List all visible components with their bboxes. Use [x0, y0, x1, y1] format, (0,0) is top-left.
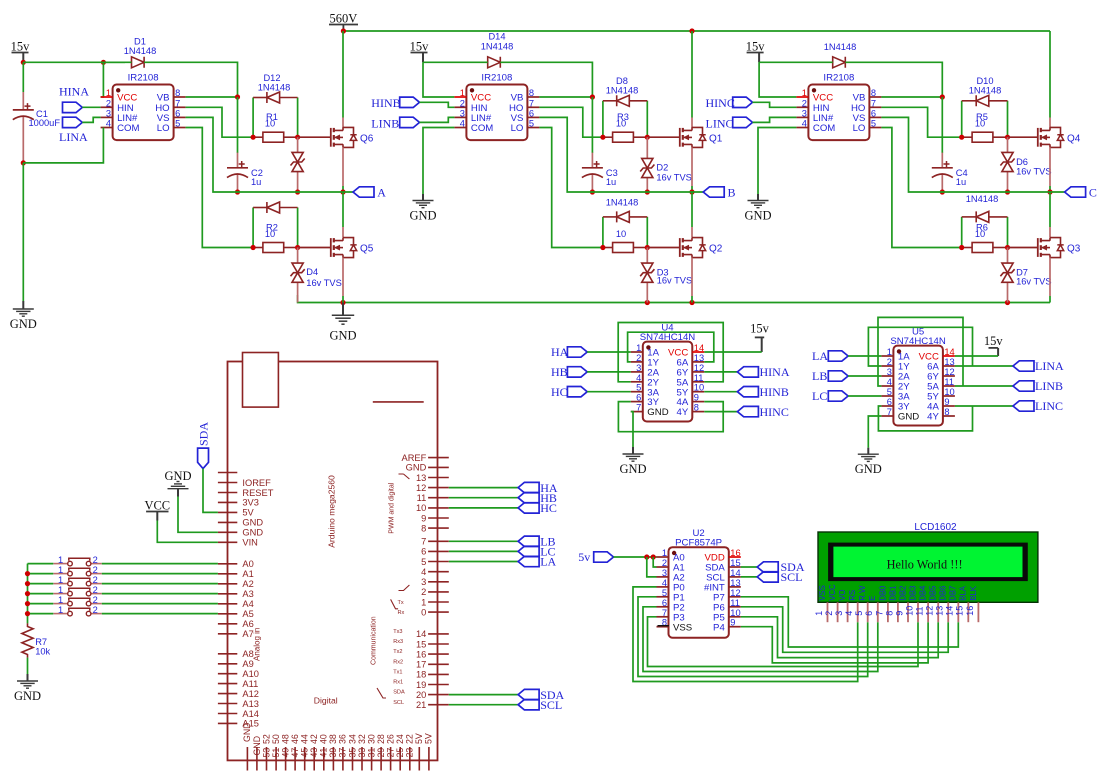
pin bottom 8	[313, 747, 315, 771]
svg-text:2: 2	[824, 611, 834, 616]
svg-text:38: 38	[328, 734, 338, 744]
transistor Q4	[1037, 128, 1039, 147]
svg-text:HC: HC	[551, 385, 568, 399]
svg-text:3: 3	[460, 108, 465, 118]
lcd pin 2 VCC	[837, 602, 839, 622]
wire gate res right vertical	[1007, 101, 1009, 137]
svg-text:14: 14	[945, 606, 955, 616]
svg-text:DB7: DB7	[949, 586, 958, 601]
svg-text:GND: GND	[242, 528, 263, 538]
junction	[590, 189, 595, 194]
svg-text:Analog in: Analog in	[253, 628, 262, 661]
pin 3	[428, 581, 449, 583]
svg-text:15v: 15v	[746, 40, 766, 54]
wire loop 3Y-4A	[618, 402, 723, 432]
svg-text:VSS: VSS	[673, 622, 692, 633]
wire LINB from U5	[955, 385, 1013, 387]
svg-text:A11: A11	[242, 679, 258, 689]
pin 13 (#INT)	[729, 586, 741, 588]
svg-text:5: 5	[854, 611, 864, 616]
pin 16 (VDD)	[729, 556, 741, 558]
wire U4 GND wire	[631, 412, 633, 447]
svg-text:Tx2: Tx2	[393, 649, 402, 655]
svg-text:7: 7	[421, 537, 426, 547]
svg-text:12: 12	[944, 367, 954, 377]
svg-text:GND: GND	[14, 689, 41, 703]
pin 17	[428, 663, 449, 665]
svg-text:HA: HA	[551, 345, 569, 359]
switch button A1	[53, 573, 67, 575]
svg-text:10: 10	[265, 119, 275, 129]
lcd pin 16 BLK	[977, 602, 979, 622]
wire gate low	[1008, 247, 1038, 249]
svg-text:10: 10	[975, 119, 985, 129]
svg-text:B: B	[728, 186, 736, 200]
svg-text:D2: D2	[656, 163, 668, 173]
op-amp driver U_C IR2108	[808, 85, 869, 141]
pin 2 (HIN)	[454, 106, 466, 108]
pin A8	[218, 653, 237, 655]
lcd pin 5 R.W	[867, 602, 869, 622]
svg-text:DB3: DB3	[908, 586, 917, 601]
wire LO to lower gate resistor	[539, 128, 603, 248]
wire HB wire	[449, 497, 518, 499]
svg-text:HC: HC	[540, 501, 557, 515]
svg-text:1u: 1u	[956, 177, 966, 187]
pin 8 (4Y)	[943, 415, 955, 417]
svg-text:11: 11	[915, 606, 925, 615]
wire HA to U4	[587, 351, 631, 353]
pin 12 (6Y)	[692, 371, 704, 373]
pin 9 (4A)	[943, 405, 955, 407]
svg-text:GND: GND	[242, 518, 263, 528]
pin GND	[218, 531, 237, 533]
wire LA wire	[449, 561, 518, 563]
wire 15v rail	[23, 61, 125, 63]
capacitor C4	[941, 153, 943, 168]
pin 5 (P1)	[657, 596, 669, 598]
svg-text:1: 1	[58, 595, 63, 605]
svg-text:PCF8574P: PCF8574P	[675, 537, 722, 548]
wire LIN input	[753, 117, 797, 122]
svg-text:5: 5	[662, 588, 667, 598]
svg-text:Tx1: Tx1	[393, 670, 402, 676]
pin 5 (3A)	[631, 391, 643, 393]
svg-text:LINC: LINC	[706, 117, 734, 131]
flag LB	[518, 536, 539, 546]
flag LA	[518, 556, 539, 566]
svg-text:22: 22	[405, 734, 415, 744]
pin 3 (LIN#)	[796, 116, 808, 118]
pin 5V	[218, 511, 237, 513]
wire ground bus	[298, 295, 1050, 303]
svg-text:2: 2	[887, 357, 892, 367]
wire HIN input	[82, 106, 100, 108]
svg-text:1u: 1u	[606, 177, 616, 187]
svg-text:11: 11	[417, 493, 427, 503]
svg-text:14: 14	[944, 347, 954, 357]
wire HO to gate resistor	[539, 107, 603, 137]
svg-text:15v: 15v	[11, 40, 31, 54]
svg-text:A10: A10	[242, 669, 259, 679]
pin bottom 3	[266, 747, 268, 771]
svg-text:5: 5	[175, 119, 180, 129]
wire HO to gate resistor	[881, 107, 961, 137]
junction	[689, 189, 694, 194]
pin 9 (4A)	[692, 401, 704, 403]
pin 5	[428, 561, 449, 563]
junction	[341, 28, 346, 33]
junction	[21, 60, 26, 65]
pin nc	[218, 472, 237, 474]
pin bottom 10	[332, 747, 334, 771]
lcd bezel	[828, 543, 1028, 582]
svg-text:6: 6	[636, 393, 641, 403]
svg-text:4: 4	[460, 119, 465, 129]
svg-text:VCC: VCC	[828, 584, 837, 601]
diode D8 1N4148	[603, 100, 617, 102]
svg-text:Digital: Digital	[314, 695, 338, 705]
svg-text:24: 24	[395, 734, 405, 744]
junction	[644, 554, 649, 559]
ground phase A left	[22, 301, 24, 309]
svg-text:7: 7	[871, 98, 876, 108]
pin 1 (1A)	[631, 351, 643, 353]
svg-text:37: 37	[338, 748, 348, 758]
pin GND	[428, 466, 449, 468]
pin A9	[218, 663, 237, 665]
svg-text:16: 16	[730, 548, 740, 558]
svg-text:26: 26	[385, 734, 395, 744]
wire HB to U4	[587, 371, 631, 373]
resistor R3	[603, 136, 613, 138]
svg-text:DB0: DB0	[878, 585, 887, 601]
pin A13	[218, 703, 237, 705]
junction	[645, 245, 650, 250]
wire P5 to DB5	[741, 617, 938, 658]
wire gate	[298, 136, 331, 138]
svg-text:D6: D6	[1016, 157, 1028, 167]
svg-text:32: 32	[357, 734, 367, 744]
svg-text:COM: COM	[117, 123, 139, 134]
wire supply diode to bootstrap	[500, 62, 592, 97]
junction	[340, 300, 345, 305]
svg-text:1: 1	[814, 611, 824, 616]
junction	[101, 60, 106, 65]
lcd pin 11 DB4	[927, 602, 929, 622]
wire P3 to DB3	[648, 617, 919, 667]
ground U4	[632, 447, 634, 454]
wire gate res left vertical	[602, 101, 604, 137]
junction	[600, 245, 605, 250]
wire button A4 left	[28, 603, 54, 605]
svg-text:1: 1	[887, 347, 892, 357]
svg-text:27: 27	[385, 748, 395, 758]
wire button A0 to pin A0	[102, 563, 218, 565]
wire button A5 to pin A5	[102, 613, 218, 615]
svg-text:1000uF: 1000uF	[29, 118, 61, 128]
svg-text:1N4148: 1N4148	[969, 86, 1002, 96]
wire button A2 to pin A2	[102, 583, 218, 585]
wire LC wire	[449, 550, 518, 552]
wire loop 1Y-6A	[628, 332, 714, 362]
lcd pin 13 DB6	[947, 602, 949, 622]
junction	[235, 189, 240, 194]
wire loop 2Y-5A U5	[878, 317, 963, 386]
svg-text:13: 13	[730, 578, 740, 588]
svg-text:A0: A0	[242, 559, 253, 569]
wire supply diode to bootstrap	[144, 62, 237, 97]
svg-text:31: 31	[366, 748, 376, 758]
svg-text:15: 15	[730, 558, 740, 568]
svg-text:5: 5	[529, 119, 534, 129]
svg-text:SN74HC14N: SN74HC14N	[640, 332, 696, 343]
wire source Q6	[342, 147, 344, 186]
svg-text:4: 4	[802, 119, 807, 129]
pin 7 (HO)	[174, 106, 186, 108]
diode D12 1N4148	[253, 97, 267, 99]
wire button A0 left	[28, 563, 54, 565]
svg-text:21: 21	[416, 700, 426, 710]
svg-text:6: 6	[662, 598, 667, 608]
svg-text:DB5: DB5	[929, 585, 938, 601]
pin 8 (VB)	[527, 96, 539, 98]
svg-text:HINA: HINA	[760, 365, 790, 379]
svg-text:33: 33	[357, 748, 367, 758]
pin A0	[218, 563, 237, 565]
svg-text:D14: D14	[488, 32, 505, 42]
junction	[590, 94, 595, 99]
svg-text:25: 25	[395, 748, 405, 758]
svg-text:A2: A2	[242, 579, 253, 589]
svg-text:52: 52	[261, 734, 271, 744]
pin 5 (LO)	[869, 127, 881, 129]
pin 13 (6A)	[943, 365, 955, 367]
svg-text:13: 13	[944, 357, 954, 367]
pin 4	[428, 571, 449, 573]
wire drain Q5	[342, 192, 344, 227]
wire VCC to VIN pin	[157, 521, 218, 543]
svg-text:10k: 10k	[35, 647, 50, 657]
svg-text:7: 7	[874, 611, 884, 616]
svg-text:9: 9	[894, 611, 904, 616]
svg-text:IOREF: IOREF	[242, 478, 271, 488]
lcd module body	[818, 532, 1038, 602]
svg-text:14: 14	[694, 343, 704, 353]
pin A14	[218, 713, 237, 715]
wire source Q1	[691, 147, 693, 186]
wire SDA wire	[449, 694, 518, 696]
svg-text:VIN: VIN	[242, 538, 258, 548]
svg-text:15: 15	[416, 639, 426, 649]
wire R7 to ground	[27, 658, 29, 674]
pin 10	[428, 507, 449, 509]
pin bottom 6	[294, 747, 296, 771]
pin 6 (3Y)	[881, 405, 893, 407]
pin 1 (VCC)	[796, 96, 808, 98]
svg-text:46: 46	[290, 734, 300, 744]
svg-text:C: C	[1089, 186, 1097, 200]
svg-text:A8: A8	[242, 649, 253, 659]
svg-text:42: 42	[309, 734, 319, 744]
wire drain Q3	[1049, 192, 1051, 227]
flag node C	[1065, 187, 1086, 197]
svg-text:A3: A3	[242, 589, 253, 599]
wire 15v to VCC pin1	[759, 62, 796, 97]
pin 5 (LO)	[527, 127, 539, 129]
pin 12 (P7)	[729, 596, 741, 598]
pin 11 (P6)	[729, 606, 741, 608]
svg-text:9: 9	[421, 513, 426, 523]
flag node B	[703, 187, 724, 197]
svg-text:1: 1	[58, 605, 63, 615]
svg-text:COM: COM	[471, 123, 493, 134]
resistor R6	[962, 247, 972, 249]
svg-text:14: 14	[730, 568, 740, 578]
pin 6 (VS)	[869, 116, 881, 118]
svg-text:12: 12	[925, 606, 935, 616]
flag SCL	[518, 700, 539, 710]
svg-text:2: 2	[93, 555, 98, 565]
resistor R7 10k	[22, 623, 33, 657]
flag HINC	[733, 97, 753, 107]
pin A4	[218, 603, 237, 605]
flag HA input	[567, 347, 587, 357]
pin 14 (VCC)	[692, 351, 704, 353]
svg-text:HINC: HINC	[706, 96, 735, 110]
pin 3 (2A)	[881, 375, 893, 377]
svg-text:23: 23	[405, 748, 415, 758]
flag LINC output	[1013, 401, 1034, 411]
svg-text:Q4: Q4	[1067, 133, 1081, 144]
junction	[689, 300, 694, 305]
svg-text:IR2108: IR2108	[481, 73, 512, 84]
wire P0 to RS	[633, 587, 858, 682]
svg-text:3: 3	[887, 367, 892, 377]
svg-text:Communication: Communication	[371, 616, 378, 665]
diode D10 1N4148	[962, 100, 977, 102]
svg-text:SDA: SDA	[393, 690, 405, 696]
pin 1 (1A)	[881, 355, 893, 357]
pin 3 (A2)	[657, 576, 669, 578]
flag SCL U2	[757, 572, 778, 582]
wire HIN input	[420, 102, 455, 107]
lcd pin 12 DB5	[937, 602, 939, 622]
junction	[959, 135, 964, 140]
junction	[251, 135, 256, 140]
svg-text:GND: GND	[164, 469, 191, 483]
wire drain Q4	[1049, 31, 1051, 118]
svg-text:GND: GND	[744, 209, 771, 223]
flag HB	[518, 493, 539, 503]
wire gate	[1008, 136, 1038, 138]
svg-text:16v TVS: 16v TVS	[656, 172, 692, 182]
pin 8 (VB)	[869, 96, 881, 98]
junction	[25, 571, 30, 576]
pin 4 (COM)	[101, 127, 113, 129]
svg-text:GND: GND	[409, 209, 436, 223]
svg-text:D10: D10	[976, 76, 993, 86]
svg-text:19: 19	[416, 680, 426, 690]
svg-text:5: 5	[421, 557, 426, 567]
svg-text:10: 10	[944, 387, 954, 397]
pin 15	[428, 643, 449, 645]
junction	[651, 554, 656, 559]
pin bottom 11	[342, 747, 344, 771]
svg-text:16: 16	[965, 606, 975, 616]
wire loop 2Y-5A	[618, 323, 723, 382]
pin 4 (COM)	[796, 127, 808, 129]
wire gate res right vertical	[646, 101, 648, 137]
svg-text:1: 1	[636, 343, 641, 353]
pin bottom 18	[409, 747, 411, 771]
flag LA input	[828, 351, 848, 361]
svg-text:IR2108: IR2108	[128, 73, 159, 84]
svg-text:7: 7	[175, 98, 180, 108]
pin A10	[218, 673, 237, 675]
pin 6	[428, 550, 449, 552]
junction	[21, 160, 26, 165]
wire VB pin8 to bootstrap	[186, 96, 238, 98]
capacitor C1 body	[22, 92, 24, 110]
svg-text:1N4148: 1N4148	[606, 198, 639, 208]
svg-text:2: 2	[460, 98, 465, 108]
pin 20	[428, 694, 449, 696]
pin bottom 14	[371, 747, 373, 771]
svg-text:Q5: Q5	[360, 244, 374, 255]
flag LINA output	[1013, 361, 1034, 371]
transistor Q2	[679, 238, 681, 257]
wire loop 1Y-6A U5	[868, 327, 972, 366]
lcd pin 3 VO	[847, 602, 849, 622]
svg-text:LA: LA	[812, 349, 828, 363]
wire source Q5	[342, 258, 344, 296]
svg-text:HINC: HINC	[760, 405, 789, 419]
group bracket pwm	[399, 474, 410, 479]
pin 3 (2A)	[631, 371, 643, 373]
svg-text:Q6: Q6	[360, 133, 374, 144]
svg-text:A14: A14	[242, 709, 259, 719]
svg-text:10: 10	[694, 383, 704, 393]
svg-text:Q3: Q3	[1067, 244, 1081, 255]
svg-text:LA: LA	[540, 555, 556, 569]
svg-text:1: 1	[58, 575, 63, 585]
capacitor C2	[237, 153, 239, 168]
svg-text:12: 12	[730, 588, 740, 598]
pin 1	[428, 601, 449, 603]
lcd pin 4 RS	[857, 602, 859, 622]
svg-text:51: 51	[271, 748, 281, 758]
junction	[235, 94, 240, 99]
wire LC to U5	[848, 395, 881, 397]
wire GND symbol to GND pin	[178, 497, 218, 533]
group bracket serial0	[391, 599, 399, 608]
junction	[689, 28, 694, 33]
flag HINC output	[737, 406, 758, 416]
flag LINA	[63, 117, 83, 127]
wire gate low	[647, 247, 680, 249]
svg-text:LINA: LINA	[1035, 359, 1064, 373]
lcd pin 6 E	[877, 602, 879, 622]
svg-text:5v: 5v	[578, 550, 590, 564]
ground bus symbol	[342, 303, 344, 316]
wire button A3 left	[28, 593, 54, 595]
svg-text:9: 9	[944, 397, 949, 407]
pin 14 (SCL)	[729, 576, 741, 578]
pin RESET	[218, 492, 237, 494]
flag LC	[518, 546, 539, 556]
svg-text:16v TVS: 16v TVS	[1016, 277, 1052, 287]
